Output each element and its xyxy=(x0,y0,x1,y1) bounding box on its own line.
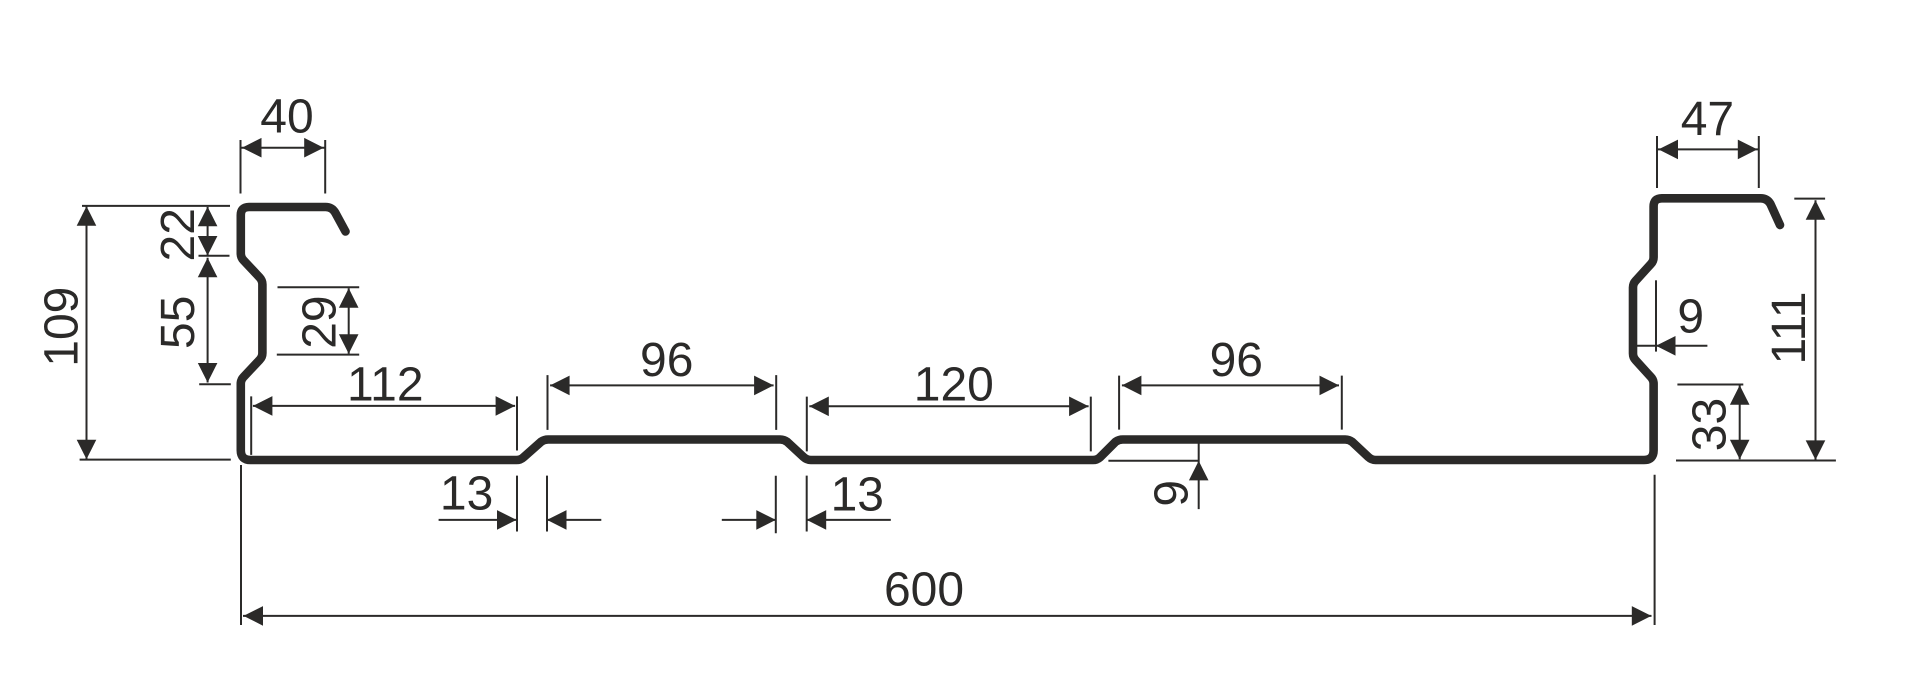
dim 40 arrows xyxy=(242,138,262,158)
dim 96b line xyxy=(1122,384,1339,386)
dim 109 extension lines xyxy=(80,206,231,460)
dim 47 arrows xyxy=(1659,140,1679,160)
dim 96b arrows xyxy=(1122,376,1142,396)
dim 33 arrows xyxy=(1730,385,1750,405)
svg-text:112: 112 xyxy=(347,358,424,411)
dim 40 line xyxy=(241,147,326,149)
dim 9 right arrow xyxy=(1656,336,1676,356)
dim 112 line xyxy=(253,405,515,407)
dim 13a lines xyxy=(439,519,602,521)
dim 600 extension lines xyxy=(241,465,1655,625)
dim 13a arrows xyxy=(497,510,517,530)
dim 29 extension lines xyxy=(277,287,359,354)
dim 600 arrows xyxy=(244,606,264,626)
svg-text:600: 600 xyxy=(884,563,964,616)
svg-text:33: 33 xyxy=(1683,398,1736,451)
dim 55 arrows xyxy=(198,258,218,278)
thin dimension and extension lines xyxy=(80,136,1836,625)
dim 9 bottom reference lines xyxy=(1108,443,1198,509)
dim 40 extension lines xyxy=(241,140,326,194)
dim 22 arrows xyxy=(198,207,218,227)
dim 55 line xyxy=(207,258,209,383)
arrowheads xyxy=(77,138,1826,626)
dim 120 line xyxy=(809,405,1088,407)
svg-text:47: 47 xyxy=(1681,93,1734,146)
svg-text:29: 29 xyxy=(293,295,346,348)
svg-text:96: 96 xyxy=(1210,334,1263,387)
dim 47 line xyxy=(1657,148,1759,150)
dim 33 extension lines xyxy=(1676,385,1836,461)
dim 600 line xyxy=(243,615,1652,617)
dim 120 arrows xyxy=(809,397,829,417)
dim 13b extension lines xyxy=(776,476,807,534)
svg-text:111: 111 xyxy=(1763,292,1816,365)
dimension labels xyxy=(35,91,1816,617)
dim 29 arrows xyxy=(339,288,359,308)
dim 112 arrows xyxy=(253,396,273,416)
dim 9 right extension line xyxy=(1655,280,1657,351)
svg-text:40: 40 xyxy=(260,91,313,144)
dim 96a extension lines xyxy=(548,375,777,430)
dim 33 line xyxy=(1739,385,1741,459)
dim 96a arrows xyxy=(550,376,570,396)
dim 109 arrows xyxy=(77,206,97,226)
profile cross-section outline xyxy=(241,198,1780,460)
dim 111 arrows xyxy=(1806,200,1826,220)
svg-text:22: 22 xyxy=(152,208,205,261)
svg-text:13: 13 xyxy=(831,469,884,522)
dim 22/55 middle tick xyxy=(199,255,230,257)
dim 13b lines xyxy=(722,519,891,521)
dim 109 line xyxy=(86,206,88,459)
svg-text:109: 109 xyxy=(35,287,88,367)
dim 9 right line xyxy=(1637,345,1707,347)
dim 111 line xyxy=(1815,200,1817,460)
dim 47 extension lines xyxy=(1657,136,1759,188)
dim 111 top tick xyxy=(1794,198,1825,200)
svg-text:13: 13 xyxy=(440,468,493,521)
svg-text:96: 96 xyxy=(640,334,693,387)
svg-text:9: 9 xyxy=(1146,480,1199,507)
dim 13b arrows xyxy=(756,510,776,530)
dim 9 bottom arrow xyxy=(1189,461,1209,481)
svg-text:120: 120 xyxy=(914,359,994,412)
dim 112 extension lines xyxy=(251,396,517,455)
dim 29 line xyxy=(348,288,350,354)
dim 120 extension lines xyxy=(807,397,1091,452)
dim 55 bottom tick xyxy=(199,383,231,385)
dim 22 line xyxy=(207,207,209,256)
svg-text:55: 55 xyxy=(152,296,205,349)
dim 13a extension lines xyxy=(517,476,547,532)
dim 96a line xyxy=(550,384,774,386)
svg-text:9: 9 xyxy=(1677,290,1704,343)
dim 96b extension lines xyxy=(1119,376,1342,430)
